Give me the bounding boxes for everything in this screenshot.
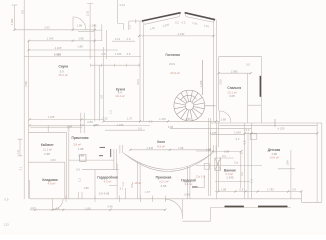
svg-text:3.05: 3.05 — [218, 79, 222, 85]
svg-text:1.6: 1.6 — [16, 150, 20, 154]
svg-text:2.63: 2.63 — [50, 158, 56, 162]
svg-text:4.95: 4.95 — [107, 204, 113, 208]
svg-text:1.88: 1.88 — [178, 146, 184, 150]
svg-text:0.9: 0.9 — [292, 187, 296, 191]
svg-text:1.345: 1.345 — [48, 115, 55, 119]
svg-text:1.2: 1.2 — [109, 110, 113, 114]
svg-text:0.9: 0.9 — [20, 10, 24, 14]
svg-text:1.2: 1.2 — [78, 178, 82, 182]
svg-text:0.9: 0.9 — [130, 184, 134, 188]
svg-text:Сауна: Сауна — [59, 65, 69, 69]
svg-text:23.9 м²: 23.9 м² — [170, 71, 179, 75]
svg-text:Гостиная: Гостиная — [165, 53, 180, 57]
svg-text:0.2: 0.2 — [182, 20, 186, 24]
svg-text:2.01: 2.01 — [86, 10, 90, 16]
svg-text:0.9: 0.9 — [243, 140, 247, 144]
svg-text:3.8 м²: 3.8 м² — [73, 143, 81, 147]
svg-text:1.345: 1.345 — [199, 80, 203, 87]
svg-text:1.88: 1.88 — [83, 186, 89, 190]
svg-text:2.1: 2.1 — [120, 186, 124, 190]
svg-text:1.345: 1.345 — [54, 52, 61, 56]
svg-text:2.98: 2.98 — [24, 81, 28, 87]
svg-text:0.9: 0.9 — [56, 206, 60, 210]
svg-text:2.12: 2.12 — [115, 37, 121, 41]
svg-text:1.04: 1.04 — [192, 21, 198, 26]
svg-text:1.98: 1.98 — [78, 147, 84, 151]
svg-text:0.88: 0.88 — [184, 192, 190, 196]
svg-text:2.92: 2.92 — [102, 116, 108, 120]
svg-text:0.9: 0.9 — [138, 126, 142, 130]
svg-text:0.88: 0.88 — [224, 150, 230, 154]
svg-text:2.282: 2.282 — [10, 18, 14, 25]
svg-text:2.1: 2.1 — [19, 166, 23, 170]
svg-text:1.045: 1.045 — [117, 123, 124, 127]
svg-text:15.2 м²: 15.2 м² — [58, 73, 67, 77]
svg-text:3.05: 3.05 — [229, 94, 235, 98]
svg-text:0.9: 0.9 — [149, 119, 153, 123]
svg-text:1.89: 1.89 — [85, 206, 91, 210]
svg-text:2.985: 2.985 — [231, 69, 238, 73]
svg-text:4.9 м²: 4.9 м² — [48, 182, 56, 186]
svg-text:0.2: 0.2 — [222, 154, 226, 158]
svg-text:1.345: 1.345 — [210, 131, 217, 135]
svg-text:1.07: 1.07 — [145, 190, 151, 194]
svg-text:3.1 м²: 3.1 м² — [185, 182, 193, 186]
svg-text:0.9: 0.9 — [240, 187, 244, 191]
svg-text:0.8: 0.8 — [127, 52, 131, 56]
svg-text:1.345: 1.345 — [115, 52, 122, 56]
svg-text:1.86: 1.86 — [77, 24, 83, 28]
svg-text:1.04: 1.04 — [149, 26, 155, 31]
svg-text:3.13: 3.13 — [119, 3, 125, 7]
svg-text:1.64: 1.64 — [286, 160, 290, 166]
svg-text:Холл: Холл — [157, 140, 165, 144]
svg-text:Прачечная: Прачечная — [72, 136, 89, 140]
svg-text:23.9: 23.9 — [169, 62, 175, 66]
svg-text:1.345: 1.345 — [146, 146, 153, 150]
svg-text:0.2: 0.2 — [246, 128, 250, 132]
svg-text:1.88: 1.88 — [78, 153, 84, 157]
svg-text:0.2: 0.2 — [175, 20, 179, 24]
svg-text:1.04: 1.04 — [203, 24, 209, 29]
svg-text:1.88: 1.88 — [221, 187, 227, 191]
svg-text:Спальня: Спальня — [227, 86, 241, 90]
svg-text:1.2: 1.2 — [121, 182, 125, 186]
svg-text:Кабинет: Кабинет — [41, 143, 54, 147]
svg-text:3.2: 3.2 — [240, 172, 244, 176]
svg-text:3.0: 3.0 — [100, 95, 104, 99]
svg-text:8.9 м²: 8.9 м² — [157, 144, 165, 148]
svg-text:1.345: 1.345 — [159, 117, 166, 121]
svg-text:1.23: 1.23 — [3, 223, 9, 227]
svg-text:14.6 м²: 14.6 м² — [270, 156, 279, 160]
svg-text:4.342: 4.342 — [178, 32, 185, 36]
svg-text:0.2: 0.2 — [80, 123, 84, 127]
svg-text:1.2: 1.2 — [128, 25, 132, 29]
svg-text:С/у 1.8: С/у 1.8 — [196, 175, 206, 179]
svg-text:5.04: 5.04 — [136, 79, 140, 85]
svg-text:1.045: 1.045 — [47, 37, 54, 41]
svg-text:2.98: 2.98 — [44, 152, 50, 156]
svg-text:0.88: 0.88 — [87, 120, 93, 124]
svg-text:0.9: 0.9 — [76, 168, 80, 172]
svg-text:4.95: 4.95 — [161, 184, 167, 188]
svg-text:6.98: 6.98 — [168, 125, 174, 129]
svg-text:1.88: 1.88 — [78, 37, 84, 41]
svg-text:1.345: 1.345 — [226, 176, 234, 180]
svg-text:0.9: 0.9 — [127, 37, 131, 41]
svg-text:1.345: 1.345 — [162, 23, 170, 28]
svg-text:0.9: 0.9 — [102, 52, 106, 56]
svg-text:1.88: 1.88 — [77, 45, 83, 49]
svg-text:1.045: 1.045 — [234, 131, 241, 135]
svg-text:С/у: С/у — [234, 160, 239, 164]
svg-text:0.9 4.95: 0.9 4.95 — [99, 191, 110, 195]
svg-text:1.88: 1.88 — [221, 117, 227, 121]
svg-text:0.88: 0.88 — [66, 126, 70, 132]
svg-text:4.325: 4.325 — [55, 46, 62, 50]
svg-text:2.63: 2.63 — [44, 26, 50, 30]
svg-text:1.37: 1.37 — [127, 116, 133, 120]
svg-text:1.80: 1.80 — [185, 117, 191, 121]
svg-text:0.9: 0.9 — [246, 63, 250, 67]
svg-text:4.155: 4.155 — [278, 127, 285, 131]
svg-text:4.2 м²: 4.2 м² — [104, 180, 112, 184]
svg-text:10.4 м²: 10.4 м² — [115, 94, 124, 98]
svg-text:1.783: 1.783 — [267, 187, 274, 191]
svg-text:0.9: 0.9 — [5, 198, 9, 202]
svg-text:0.2: 0.2 — [236, 137, 240, 141]
svg-text:1.1: 1.1 — [250, 179, 254, 183]
svg-text:1.045: 1.045 — [90, 24, 97, 28]
